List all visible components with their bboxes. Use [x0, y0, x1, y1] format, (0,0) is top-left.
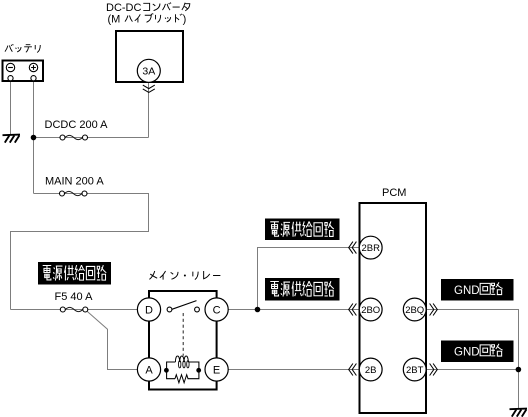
svg-text:DCDC 200 A: DCDC 200 A	[45, 119, 109, 131]
node junction 2BR branch	[255, 307, 261, 313]
ground G2 (PCM)	[510, 409, 528, 417]
main relay label	[149, 271, 220, 280]
PCM pin 2BQ	[403, 298, 426, 321]
svg-text:GND: GND	[454, 285, 480, 297]
wire DCDC feed	[34, 137, 149, 139]
connector chevron out of 2BQ	[430, 304, 438, 316]
svg-text:2BR: 2BR	[361, 243, 380, 254]
ground G1 (battery)	[3, 135, 21, 143]
connector chevron into 2BO	[349, 304, 357, 316]
svg-text:2BQ: 2BQ	[405, 305, 424, 316]
connector chevron out of 2BT	[430, 364, 438, 376]
relay pin C	[205, 298, 228, 321]
net label power supply circuit (2BR)	[265, 219, 340, 241]
svg-text:(M: (M	[108, 14, 121, 26]
net label power supply circuit (F5)	[38, 262, 111, 285]
svg-text:F5 40 A: F5 40 A	[55, 291, 94, 303]
relay pin E	[205, 358, 228, 381]
net label GND circuit (2BT)	[441, 341, 514, 363]
svg-text:MAIN 200 A: MAIN 200 A	[45, 176, 104, 188]
wire PCM 2BT to ground	[427, 369, 519, 371]
wire F5 to relay D	[11, 309, 138, 311]
battery label	[5, 44, 40, 52]
wire MAIN run right and around	[11, 194, 149, 310]
svg-text:2BT: 2BT	[406, 365, 424, 376]
wire relay E to PCM 2B	[228, 369, 359, 371]
fuse MAIN 200 A	[45, 176, 104, 196]
relay coil with resistor	[164, 356, 201, 383]
connector pin 3A	[137, 59, 160, 82]
PCM pin 2BT	[403, 358, 426, 381]
svg-text:DC-DC: DC-DC	[106, 2, 141, 14]
relay K1 main relay box	[149, 291, 217, 390]
PCM pin 2B	[359, 358, 382, 381]
relay pin D	[137, 298, 160, 321]
svg-text:A: A	[145, 365, 153, 377]
relay pin A	[137, 358, 160, 381]
DC-DC converter label	[106, 2, 190, 26]
PCM pin 2BO	[359, 298, 382, 321]
wire DC-DC converter drop	[148, 83, 150, 138]
wire battery positive down	[33, 82, 35, 193]
node junction battery/DCDC	[31, 135, 37, 141]
net label GND circuit (2BQ)	[441, 279, 514, 301]
connector chevron below 3A	[143, 85, 155, 92]
wire branch F5 to relay A	[86, 311, 137, 370]
svg-text:PCM: PCM	[382, 187, 406, 199]
svg-text:3A: 3A	[142, 66, 155, 78]
PCM pin 2BR	[359, 236, 382, 259]
svg-text:C: C	[213, 305, 221, 317]
svg-text:GND: GND	[454, 346, 480, 358]
wire battery negative to ground	[10, 82, 12, 135]
svg-text:E: E	[213, 365, 220, 377]
svg-text:): )	[183, 14, 187, 26]
relay actuation dashed link	[182, 313, 184, 356]
wire PCM 2BQ to ground	[427, 310, 519, 409]
node junction GND lines	[516, 367, 522, 373]
wire branch up to PCM 2BR	[258, 248, 360, 310]
battery B	[3, 61, 44, 82]
svg-text:2BO: 2BO	[361, 305, 380, 316]
fuse F5 40 A	[55, 291, 94, 312]
connector chevron into 2BR	[349, 242, 357, 254]
relay switch blade	[167, 301, 199, 312]
net label power supply circuit (2BO)	[265, 278, 340, 301]
DC-DC converter unit	[116, 31, 183, 82]
svg-text:D: D	[145, 305, 153, 317]
wire relay C to PCM 2BO	[228, 309, 359, 311]
connector chevron into 2B	[349, 364, 357, 376]
svg-text:2B: 2B	[365, 365, 377, 376]
PCM unit box	[360, 203, 427, 413]
fuse DCDC 200 A	[45, 119, 109, 140]
